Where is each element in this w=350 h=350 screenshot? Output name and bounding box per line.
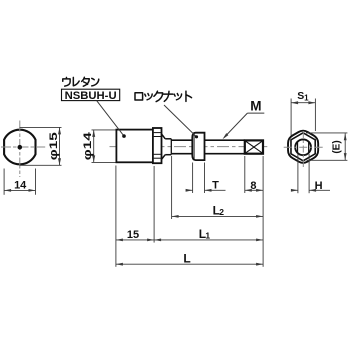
svg-text:T: T [212,180,219,192]
svg-text:15: 15 [127,229,139,241]
svg-text:14: 14 [14,179,27,191]
svg-text:φ14: φ14 [82,131,94,160]
svg-text:NSBUH-U: NSBUH-U [65,90,117,102]
svg-text:8: 8 [250,180,256,192]
svg-text:2: 2 [219,207,224,217]
svg-text:(E): (E) [332,140,343,153]
svg-text:M: M [250,99,261,114]
svg-text:1: 1 [205,230,210,240]
svg-text:H: H [315,180,323,192]
svg-text:φ15: φ15 [48,132,60,160]
svg-text:1: 1 [304,93,309,102]
svg-text:L: L [183,251,190,265]
